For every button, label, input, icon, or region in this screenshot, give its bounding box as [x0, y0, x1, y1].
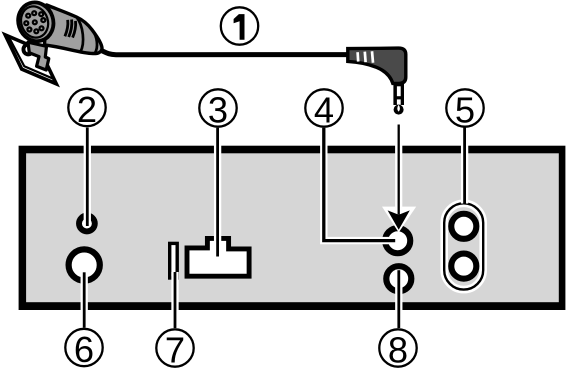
mic clip plate rim [9, 37, 54, 79]
callout 4 [305, 89, 342, 130]
mic head face [17, 3, 52, 41]
mic clip plate [5, 35, 56, 84]
plug shaft [393, 83, 404, 114]
leader line 8 [395, 270, 402, 328]
slot S7 (narrow rectangle) [170, 243, 178, 278]
mic grip ridges [65, 20, 68, 36]
connector CN3 (keyed connector outline) [187, 238, 249, 276]
mic body seam 1 [77, 17, 84, 52]
svg-text:3: 3 [208, 89, 228, 130]
leader line 4 (elbow) [324, 128, 396, 241]
jack J4 (mic input ring) [385, 228, 410, 253]
mic body seam 2 [92, 30, 97, 54]
svg-text:2: 2 [77, 89, 97, 130]
leader line 7 [171, 272, 178, 328]
preout jack P5a [451, 214, 476, 239]
leader line 5 [461, 128, 468, 204]
svg-text:7: 7 [165, 329, 185, 370]
callout 7 [156, 329, 193, 370]
callout 1 [221, 7, 258, 44]
leader line 3 [214, 128, 221, 257]
jack J6 (large ring, bottom-left) [69, 249, 100, 280]
callout 5 [446, 89, 483, 130]
panel face [26, 153, 559, 302]
microphone cable [101, 50, 350, 54]
plug body [348, 48, 406, 83]
preout jack P5b [451, 254, 476, 279]
svg-text:8: 8 [388, 329, 408, 370]
svg-text:6: 6 [74, 329, 94, 370]
arrow from plug to jack J4 [382, 125, 416, 233]
callout 2 [68, 89, 105, 130]
svg-text:5: 5 [455, 89, 475, 130]
callout 6 [65, 329, 102, 370]
mic head outer rim [13, 0, 58, 46]
bracket hinge hook [23, 44, 30, 54]
callout 8 [379, 329, 416, 370]
jack J2 (small ring, top-left) [79, 216, 95, 232]
leader line 6 [81, 272, 88, 328]
svg-text:4: 4 [314, 89, 334, 130]
callout 3 [199, 89, 236, 130]
jack J8 (ring below J4) [386, 266, 411, 291]
plug tip [394, 105, 404, 115]
mic clip bracket [28, 42, 49, 70]
preout plate P5 (stadium outline) [444, 203, 483, 289]
leader line 2 [84, 128, 91, 226]
mic body [45, 5, 103, 54]
panel (unit rear) outer border [19, 146, 566, 310]
plug strain relief stripes [358, 51, 373, 63]
mic grille holes [24, 11, 45, 33]
